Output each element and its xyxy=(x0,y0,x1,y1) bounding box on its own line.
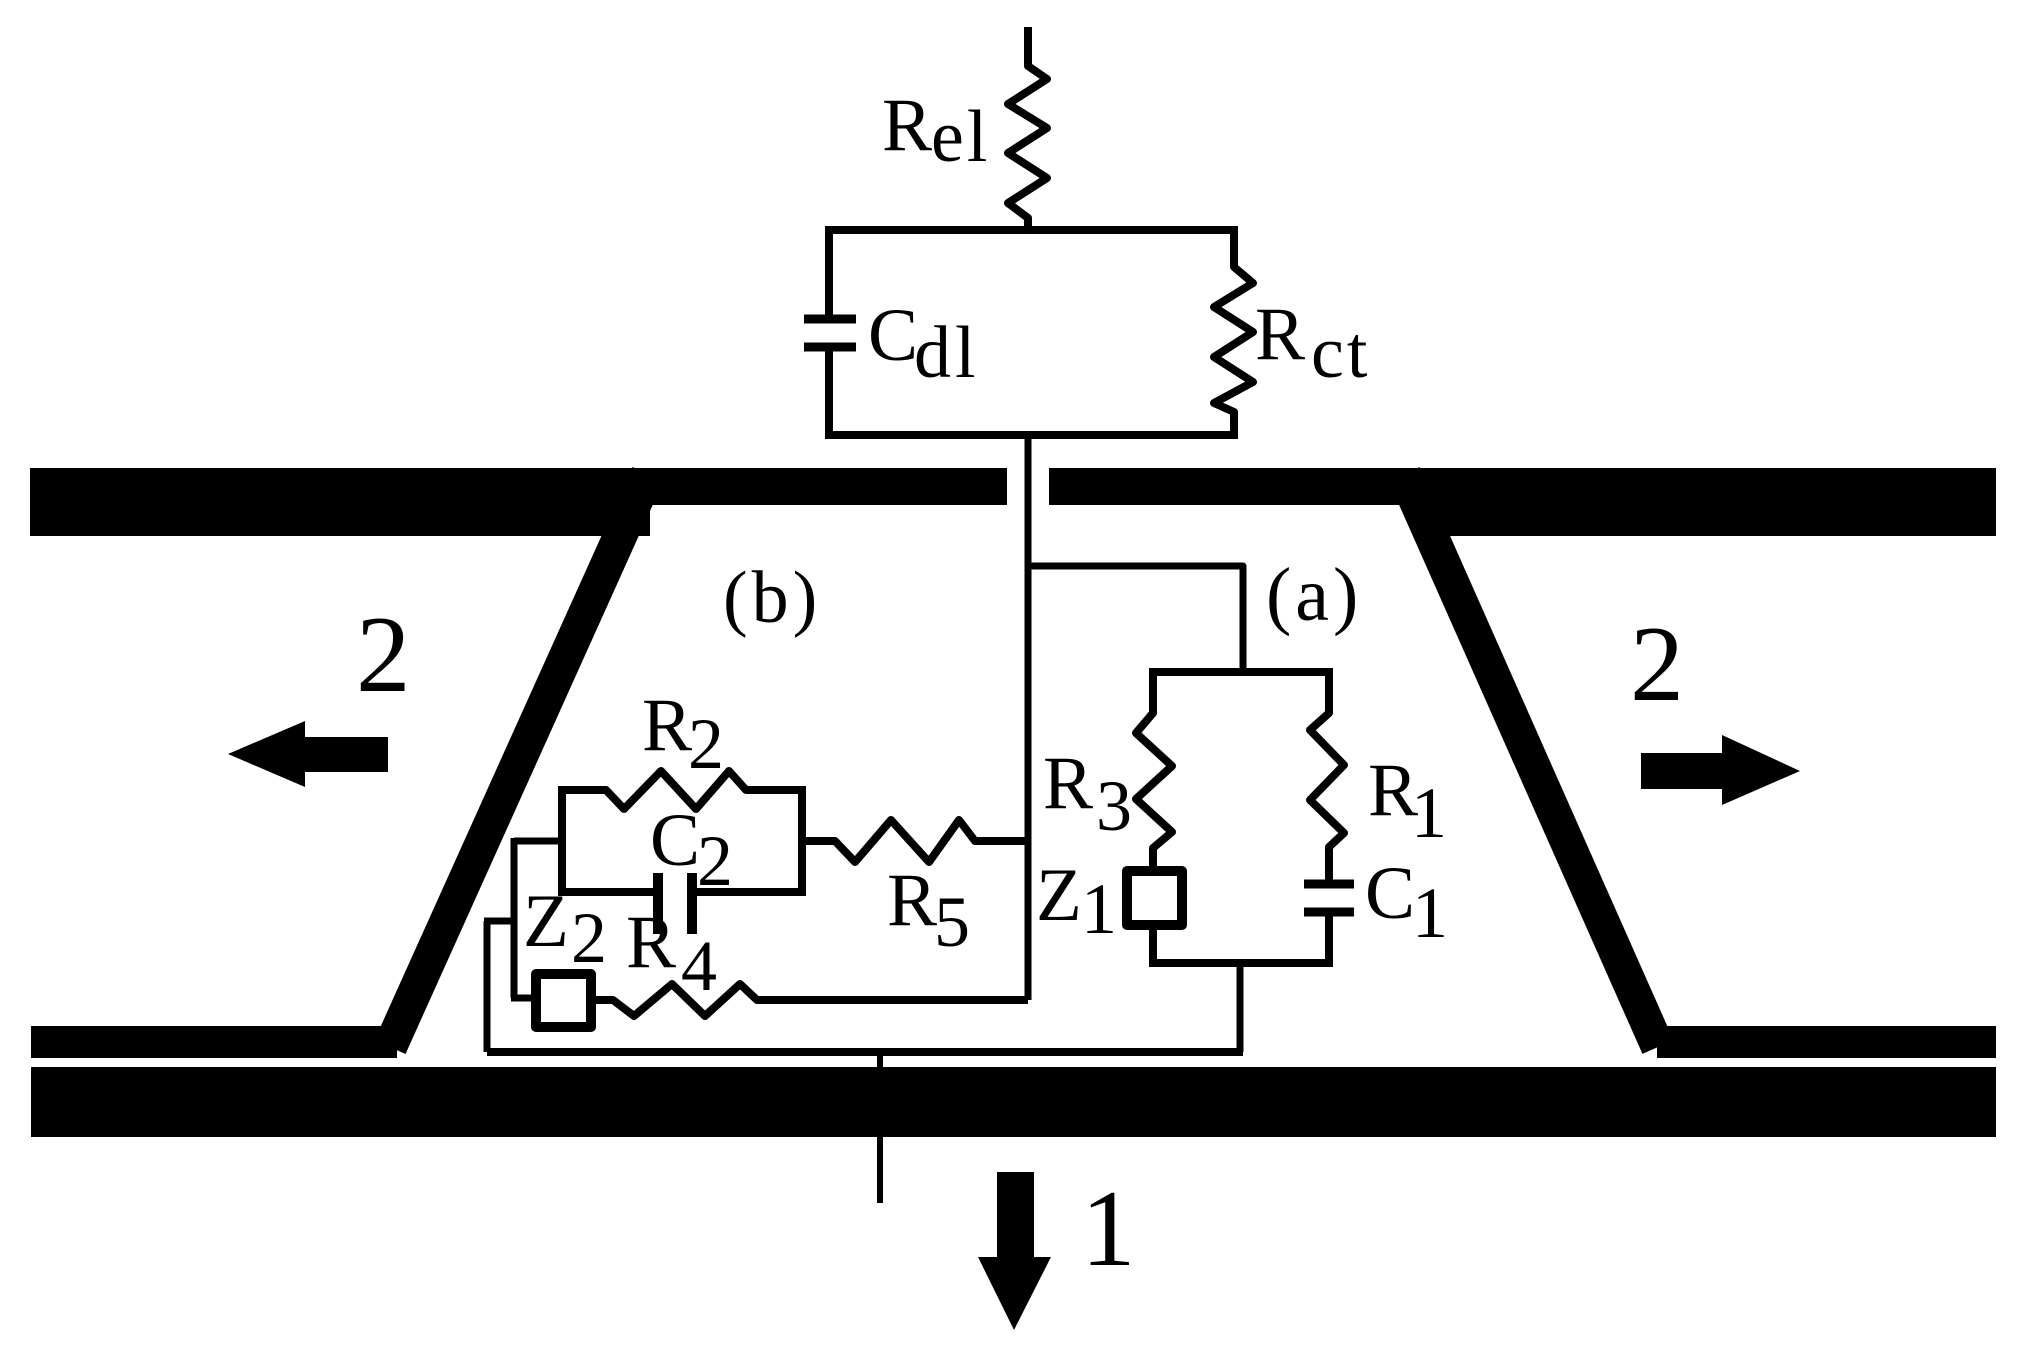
svg-text:R: R xyxy=(887,859,937,942)
svg-text:R: R xyxy=(1255,293,1305,376)
svg-text:2: 2 xyxy=(571,898,607,978)
svg-text:2: 2 xyxy=(356,594,411,715)
svg-text:1: 1 xyxy=(1412,873,1448,953)
svg-text:el: el xyxy=(931,96,990,178)
svg-text:1: 1 xyxy=(1081,1168,1136,1289)
svg-text:1: 1 xyxy=(1081,869,1117,949)
svg-text:C: C xyxy=(868,294,918,377)
svg-text:C: C xyxy=(1365,852,1415,935)
svg-text:1: 1 xyxy=(1411,773,1447,853)
svg-text:2: 2 xyxy=(688,704,724,784)
svg-text:4: 4 xyxy=(681,926,717,1006)
svg-text:(a): (a) xyxy=(1266,553,1362,637)
svg-text:2: 2 xyxy=(1630,605,1684,724)
svg-text:Z: Z xyxy=(1036,854,1082,937)
svg-text:R: R xyxy=(1043,742,1093,825)
svg-text:C: C xyxy=(650,799,700,882)
svg-text:R: R xyxy=(626,901,676,984)
svg-text:Z: Z xyxy=(523,880,569,963)
svg-text:ct: ct xyxy=(1311,312,1370,394)
svg-text:2: 2 xyxy=(697,821,733,901)
svg-text:(b): (b) xyxy=(723,557,821,639)
svg-text:dl: dl xyxy=(914,312,980,394)
svg-text:R: R xyxy=(642,684,692,767)
svg-text:R: R xyxy=(882,84,932,167)
svg-text:5: 5 xyxy=(934,882,970,962)
svg-text:3: 3 xyxy=(1096,766,1132,846)
